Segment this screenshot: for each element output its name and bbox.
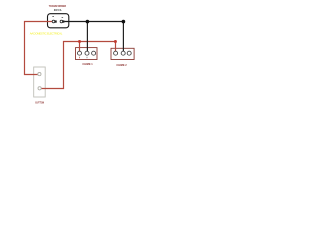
node: black junction 1 bbox=[86, 20, 90, 24]
chime 2 terminal 2 bbox=[121, 51, 125, 55]
node: red junction at chime1 bbox=[78, 40, 81, 43]
button terminal 2 bbox=[38, 87, 41, 90]
chime 1 pin mark 2 bbox=[86, 57, 88, 58]
svg-text:AA DOMESTIC ELECTRICAL: AA DOMESTIC ELECTRICAL bbox=[30, 31, 63, 35]
transformer terminal 2 lug bbox=[62, 20, 64, 22]
chime 1 terminal 2 bbox=[85, 51, 89, 55]
svg-text:BUTTON: BUTTON bbox=[35, 101, 44, 105]
chime 1 pin mark 1 bbox=[79, 57, 81, 58]
transformer T1 box bbox=[48, 14, 69, 28]
transformer terminal mark 1 bbox=[52, 15, 54, 18]
transformer terminal mark 2 bbox=[62, 16, 64, 19]
chime 1 box bbox=[76, 48, 98, 60]
wire: red drop to chime1 terminal 1 bbox=[79, 42, 81, 52]
svg-text:CHIME 2: CHIME 2 bbox=[116, 63, 127, 67]
wire: black drop to chime1 terminal 2 bbox=[86, 22, 88, 52]
transformer terminal 1 lug bbox=[55, 20, 57, 22]
chime 2 terminal 3 bbox=[127, 51, 131, 55]
wire: black drop to chime2 terminal 2 bbox=[122, 22, 124, 52]
button terminal 1 bbox=[38, 73, 41, 76]
chime 1 terminal 3 bbox=[92, 51, 96, 55]
wire: red drop to chime2 terminal 1 bbox=[115, 42, 117, 52]
svg-text:24V CA: 24V CA bbox=[54, 8, 62, 12]
chime 2 terminal 1 bbox=[114, 51, 118, 55]
svg-text:CHIME 1: CHIME 1 bbox=[82, 62, 93, 66]
wire: red from button bottom terminal up to red bus bbox=[41, 42, 116, 89]
transformer terminal 1 screw bbox=[52, 20, 55, 23]
wire: black bus from transformer right terminal bbox=[64, 21, 123, 23]
button box bbox=[34, 67, 46, 97]
wire: red from transformer left terminal to button top terminal bbox=[25, 22, 54, 75]
node: black junction 2 bbox=[122, 20, 126, 24]
node: red junction at chime2 bbox=[114, 40, 117, 43]
transformer terminal 2 screw bbox=[60, 20, 63, 23]
chime 1 terminal 1 bbox=[78, 51, 82, 55]
chime 2 box bbox=[111, 48, 134, 59]
